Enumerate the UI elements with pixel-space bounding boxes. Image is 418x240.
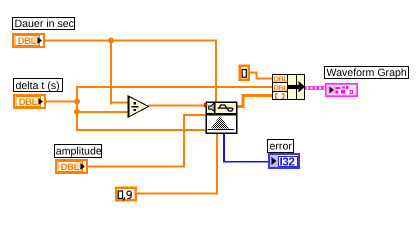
svg-text:delta t (s): delta t (s) <box>16 80 60 92</box>
svg-text:Dauer in sec: Dauer in sec <box>15 18 75 30</box>
svg-text:DBL: DBL <box>274 84 289 93</box>
svg-text:I32: I32 <box>280 156 295 168</box>
svg-text:DBL: DBL <box>274 75 289 84</box>
svg-text:error: error <box>270 141 293 153</box>
svg-text:amplitude: amplitude <box>56 146 102 158</box>
svg-text:Waveform Graph: Waveform Graph <box>327 67 407 79</box>
svg-text:DBL: DBL <box>18 36 37 47</box>
